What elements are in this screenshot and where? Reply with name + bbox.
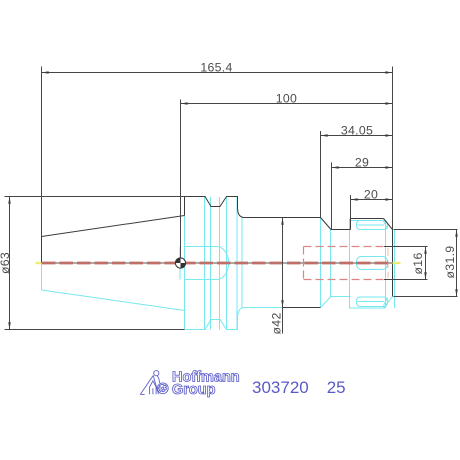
bore left edge xyxy=(179,247,181,280)
cyan vertical flange right face xyxy=(236,197,238,330)
logo figure right edge xyxy=(153,376,158,395)
cyan vertical V corner 2 xyxy=(210,197,212,330)
nut chamfer xyxy=(384,219,393,230)
logo gear outer xyxy=(157,383,168,394)
arrows 34.05 xyxy=(321,134,328,137)
cone left face xyxy=(41,237,43,264)
nut lower profile xyxy=(350,297,393,309)
gauge ball xyxy=(175,258,185,268)
nose top edge xyxy=(331,229,351,231)
centerline yellow left xyxy=(36,262,42,264)
svg-text:20: 20 xyxy=(364,187,378,201)
arrows 100 xyxy=(181,102,188,105)
nut left face xyxy=(350,219,352,230)
nut top slot xyxy=(357,221,388,230)
arrows o42 xyxy=(281,218,284,225)
ext line o63 bottom xyxy=(5,329,185,331)
nut top edge xyxy=(351,218,384,220)
cyan vertical chamfer end xyxy=(330,230,332,297)
flange lower profile with V-groove mirror xyxy=(185,308,283,330)
flange top with V-groove xyxy=(185,197,245,218)
cone left face lower half xyxy=(41,263,43,290)
svg-text:29: 29 xyxy=(355,155,369,169)
svg-text:Group: Group xyxy=(172,382,216,398)
dim line o63 xyxy=(9,197,11,330)
arrows o16 xyxy=(424,247,427,254)
body chamfer xyxy=(321,218,332,230)
dim line 165.4 xyxy=(42,72,393,74)
cone top edge xyxy=(42,216,185,237)
arrows o31.9 xyxy=(455,230,458,237)
body bottom edge black segment xyxy=(283,307,321,309)
nut bottom slot xyxy=(357,297,388,307)
svg-text:ø31.9: ø31.9 xyxy=(443,246,457,279)
ext line 100 left xyxy=(180,100,182,259)
dim line o31.9 xyxy=(456,230,458,297)
cyan vertical V corner 1 xyxy=(204,197,206,330)
arrows 165.4 xyxy=(42,71,49,74)
arrows 29 xyxy=(332,166,339,169)
ext line 20 left xyxy=(350,195,352,219)
ext line 34.05 left xyxy=(320,131,322,218)
cyan nut box top edge xyxy=(350,220,384,222)
ext line o16 bottom xyxy=(384,279,428,281)
svg-text:ø63: ø63 xyxy=(0,252,12,274)
cyan vertical V corner 4 xyxy=(226,197,228,330)
collet bore dashed rect xyxy=(304,247,389,280)
ext line o16 top xyxy=(384,246,428,248)
logo wordmark xyxy=(172,370,240,398)
cone bottom edge xyxy=(42,290,185,311)
dim line 100 xyxy=(181,103,393,105)
flange left face xyxy=(184,197,186,216)
dim line 29 xyxy=(332,167,393,169)
svg-text:303720: 303720 xyxy=(252,378,309,397)
logo gear hole xyxy=(162,387,164,389)
logo figure inner legs xyxy=(150,381,157,395)
ext line right datum xyxy=(392,67,394,230)
ext line o31.9 bottom xyxy=(394,296,458,298)
dim line o42 xyxy=(282,218,284,334)
body chamfer mirror xyxy=(321,297,351,308)
cyan vertical V corner 3 xyxy=(219,197,221,330)
ext line o63 top xyxy=(5,196,185,198)
dim line 34.05 xyxy=(321,135,393,137)
body top edge xyxy=(245,217,321,219)
dim line o16 xyxy=(425,247,427,280)
svg-text:34.05: 34.05 xyxy=(341,123,373,137)
centerline yellow right xyxy=(393,262,401,264)
nose end face xyxy=(392,230,394,297)
nut middle slot xyxy=(357,257,388,270)
svg-text:165.4: 165.4 xyxy=(200,60,232,74)
ext line o31.9 top xyxy=(394,229,458,231)
ext line 165.4 left xyxy=(41,67,43,237)
arrows o63 xyxy=(8,197,11,204)
part number 303720 25 xyxy=(252,378,346,397)
cyan vertical nose face xyxy=(394,230,396,309)
logo head xyxy=(154,371,159,376)
centerline black xyxy=(42,262,393,264)
centerline red dashes xyxy=(42,262,392,265)
svg-text:100: 100 xyxy=(276,91,297,105)
cyan vertical body end xyxy=(320,218,322,308)
svg-text:ø42: ø42 xyxy=(270,312,284,334)
logo gear cog xyxy=(159,385,167,392)
arrows 20 xyxy=(351,198,358,201)
cyan vertical nut left face xyxy=(349,219,351,297)
logo figure left leg xyxy=(140,376,153,395)
svg-text:25: 25 xyxy=(327,378,346,397)
cyan vertical flange left face xyxy=(184,216,186,330)
logo arm xyxy=(157,376,159,383)
svg-text:ø16: ø16 xyxy=(411,252,425,274)
internal bore capsule xyxy=(185,247,229,280)
cyan vertical fillet end xyxy=(241,218,243,308)
cyan vertical nut right edge xyxy=(385,221,387,309)
dim line 20 xyxy=(351,199,393,201)
ext line 29 left xyxy=(331,163,333,230)
